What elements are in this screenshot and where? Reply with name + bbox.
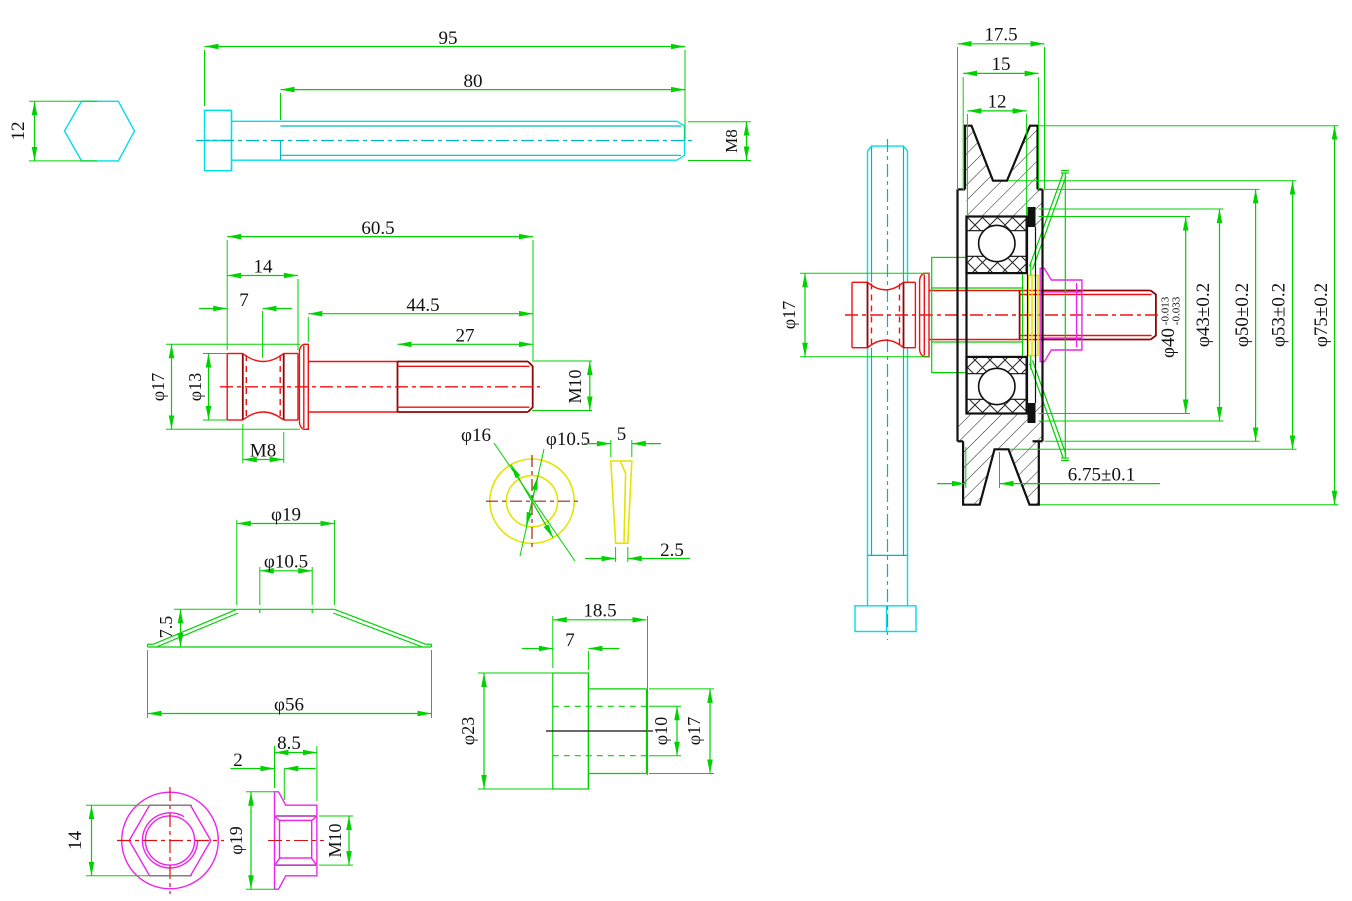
svg-text:M8: M8 [250,441,276,462]
dim 14 line [227,275,298,277]
dim M10 extension lines [319,815,353,817]
dim 15 line [963,72,1038,74]
dim phi50 extension lines [1045,188,1260,190]
pulley left face [956,189,958,441]
dim phi75 line [1334,126,1336,505]
pulley upper band hatch [958,189,1043,227]
right slant outer/inner [334,609,425,644]
phi10 bore dashed [553,705,647,707]
hex outline [129,805,211,876]
conical washer (yellow) in assembly [1029,276,1039,356]
dim 8.5 extension lines [274,746,276,788]
dim 44.5 line [308,313,533,315]
dim 44.5 extension line [307,317,309,342]
thread bore circle [145,816,194,865]
svg-text:27: 27 [456,326,475,347]
dim 7.5 extension line [174,608,236,610]
dim phi13 line [208,354,210,421]
bolt head [855,606,916,632]
svg-text:φ10: φ10 [651,717,671,745]
centerline vertical (red) [169,787,171,894]
dim 2.5 outside arrows [585,558,616,560]
phi17 section top/bottom [588,688,646,690]
svg-text:φ17: φ17 [779,301,799,329]
dim phi16 leader [494,443,575,561]
centerline horizontal [486,500,578,502]
shank outer lines M10 [308,361,397,363]
pulley top rim outline [965,126,1038,190]
dim phi13 extension lines [203,353,227,355]
svg-text:φ50±0.2: φ50±0.2 [1232,283,1253,347]
svg-text:44.5: 44.5 [406,295,439,316]
svg-text:φ75±0.2: φ75±0.2 [1311,283,1332,347]
bolt centerline [196,140,692,142]
pulley step edges bottom [958,440,964,442]
pulley step edges top [958,188,966,190]
svg-text:M10: M10 [565,369,585,403]
dim 7 outside arrows [522,648,553,650]
inner fold lines [621,462,626,543]
dim 6.75 extension lines [965,447,967,488]
groove thread dashed lines [245,355,247,419]
svg-text:12: 12 [8,122,29,141]
hole edge marks [259,609,261,613]
dim 14 line [91,805,93,876]
dim 12 line [34,101,36,161]
cone rim caps [1061,170,1069,172]
dim phi40 extension lines [1039,216,1191,218]
hex bolt head (end view, cyan hexagon) [65,101,135,161]
dim 5 extension lines [610,440,612,457]
lower bearing outline [967,357,1027,414]
shaft centerline [845,314,1162,316]
svg-text:φ13: φ13 [185,373,205,401]
lower bearing outer race cross-hatch [967,399,1027,413]
dim phi10.5 leader [520,449,544,556]
lower bearing inner race cross-hatch [967,357,1027,374]
dim 5 outside arrows [584,443,611,445]
centerline horizontal (red) [117,840,224,842]
dim phi19 extension lines [236,520,238,605]
dim phi23 extension lines [478,672,553,674]
cone washer rim (green) in assembly [1064,173,1066,458]
centerline vertical [531,455,533,547]
svg-text:φ17: φ17 [684,717,704,745]
washer inner circle [506,476,557,527]
dim phi56 line [148,713,432,715]
svg-text:7: 7 [565,630,575,651]
shank outer lines [232,120,678,122]
top flat [237,608,335,610]
nut inner face line [1076,283,1078,347]
tapered washer outline [611,461,632,543]
dim 12 extension lines [966,114,968,216]
dim M10 line [348,816,350,865]
dim 18.5 extension lines [552,616,554,668]
shaft collar [924,273,929,356]
svg-text:φ19: φ19 [226,826,246,854]
svg-text:95: 95 [439,28,458,49]
dim 60.5 extension lines [226,240,228,350]
bushing phi17 section [966,272,1022,274]
pulley right face [1041,189,1043,441]
dim 2 extension line [283,769,285,801]
nut outline [275,792,317,889]
tip chamfer [528,362,533,413]
thread minor lines [398,365,530,367]
dim M10 line [589,361,591,411]
pulley bottom rim hatch [963,441,1039,504]
groove arcs [243,354,284,362]
svg-text:φ53±0.2: φ53±0.2 [1269,283,1290,347]
bolt head hex edge [886,606,888,632]
left slant outer/inner [154,609,237,644]
nut centerline (red) [268,840,324,842]
spool right face [914,282,916,347]
thread minor lines [1020,294,1152,296]
flange phi23 [553,673,589,789]
bearing inner lines at bore [967,272,1027,274]
dim phi17 line [804,273,806,356]
svg-text:-0.033: -0.033 [1171,296,1183,325]
bore wall left [965,217,967,414]
dim M8 line [243,459,284,461]
countersink chamfers [275,817,281,822]
dim phi17 extension lines (assembly left) [800,272,930,274]
upper bearing ball [979,225,1015,261]
centerline (black) [546,730,653,732]
lower bearing ball [979,368,1015,404]
dim 80 line [281,89,686,91]
dim 6.75 outside arrows [937,483,966,485]
dim phi40 line [1185,217,1187,414]
dim phi17 line [171,344,173,429]
bolt shank outer (cyan, vertical) [867,151,869,282]
svg-text:17.5: 17.5 [984,25,1017,46]
left foot [148,643,154,645]
svg-text:M8: M8 [722,129,741,153]
bolt centerline [887,139,889,640]
svg-text:φ10.5: φ10.5 [546,429,590,450]
svg-text:18.5: 18.5 [583,601,616,622]
right face [646,689,648,774]
dim 2 outside arrows [230,768,274,770]
svg-text:8.5: 8.5 [277,733,301,754]
shaft shank lines [929,290,1040,292]
nut thread hole lines [1040,291,1082,293]
bore wall right [1027,227,1029,403]
dim M10 extension lines [532,360,592,362]
cone upper slants [1030,174,1064,267]
svg-text:6.75±0.1: 6.75±0.1 [1068,465,1135,486]
dim phi50 line [1255,189,1257,441]
dim 60.5 line [227,236,533,238]
dim phi23 line [483,673,485,789]
collar (flange washer) [304,344,309,429]
svg-text:5: 5 [617,424,627,445]
spool groove dashed [871,284,873,347]
thread bore rectangle [280,820,312,858]
bolt tip [868,146,908,151]
bolt thread minor lines [871,146,873,282]
head middle line [205,140,232,142]
dim phi19 extension lines [246,791,276,793]
bottom edge [148,646,432,648]
right foot [426,643,432,645]
dim 15 extension lines [962,77,964,190]
svg-text:φ17: φ17 [148,373,168,401]
dim 7.5 line [180,609,182,647]
dim phi75 extension lines [1039,125,1339,127]
dim phi10.5 line [260,570,312,572]
snap ring lower (black) [1028,403,1036,423]
upper bearing inner race cross-hatch [967,256,1027,273]
upper bearing outline [967,217,1027,274]
pulley bottom rim outline [963,441,1039,504]
spool left face (red) [851,282,853,347]
step face [587,673,589,789]
cone small-end stubs [1030,262,1032,276]
dim 7 extension line [262,311,264,358]
thread runout vertical [280,141,282,161]
svg-text:2: 2 [233,750,243,771]
dim 80 extension line [280,93,282,120]
dim 7 extension line [587,651,589,670]
dim M8 extension lines [242,424,244,463]
dim phi53 extension lines [1008,180,1297,182]
groove flange edges (solid dark) [242,354,244,421]
spool top/bottom edges [227,353,243,355]
spool right face [297,354,299,421]
tip chamfer [677,121,685,160]
svg-text:14: 14 [254,257,274,278]
dim 17.5 extension lines [957,47,959,190]
svg-text:12: 12 [988,92,1007,113]
dim 7 outside arrows [199,308,227,310]
upper bearing race lines [967,230,1027,232]
svg-text:60.5: 60.5 [361,218,394,239]
dim 17.5 line [958,43,1045,45]
shaft tip chamfer [1151,291,1156,340]
dim 95 extension lines [204,50,206,106]
dim phi17 extension lines [649,688,714,690]
dim phi53 line [1292,181,1294,450]
svg-text:2.5: 2.5 [660,540,684,561]
thread start line [1019,291,1021,340]
svg-text:15: 15 [992,54,1011,75]
svg-text:φ19: φ19 [271,505,301,526]
dim phi17 extension lines [166,343,300,345]
lower bearing race lines [967,373,1027,375]
shank end faces [231,110,233,170]
svg-text:φ56: φ56 [274,695,304,716]
shaft centerline [220,386,540,388]
dim phi43 line [1219,209,1221,421]
svg-text:φ43±0.2: φ43±0.2 [1193,283,1214,347]
dim 2.5 extension lines [615,547,617,562]
svg-text:14: 14 [65,831,86,851]
thread major arc [142,813,197,868]
dim 14 extension line [297,279,299,350]
pulley top rim hatch [965,126,1038,190]
spool left face [226,354,228,421]
washer outer circle [490,459,574,543]
svg-text:7: 7 [239,290,249,311]
dim 14 extension lines [86,804,192,806]
dim phi10.5 extension lines [259,567,261,605]
bushing bore lines [932,287,1023,289]
svg-text:80: 80 [464,71,483,92]
bolt head rect [205,110,232,170]
dim 12 extension lines [29,100,97,102]
dim phi43 extension lines [1039,208,1224,210]
dim phi19 line [237,523,335,525]
svg-text:7.5: 7.5 [156,616,176,639]
spool top/bottom edges [852,281,868,283]
svg-text:M10: M10 [325,823,345,857]
spool groove edges [867,282,869,347]
svg-text:φ23: φ23 [458,717,478,745]
dim phi10 line [676,706,678,755]
flange circle [122,792,219,889]
thread major lines [276,815,317,817]
dim phi56 extension lines [147,650,149,718]
dim phi10 extension lines [649,705,681,707]
nut flange (magenta) in assembly [1040,268,1082,361]
dim 12 line [967,110,1026,112]
thread start line [397,362,399,413]
dim phi19 line [250,792,252,889]
upper bearing outer race cross-hatch [967,217,1027,231]
dim phi17 line [709,689,711,774]
dim 27 line [398,343,534,345]
bolt thread runout [868,554,908,556]
cone lower slants [1030,364,1064,458]
dim M8 line [746,122,748,161]
thread minor lines [281,125,682,127]
spool groove arcs [868,282,904,290]
dim 18.5 line [553,619,647,621]
svg-text:φ16: φ16 [461,425,491,446]
bushing right face [1022,273,1024,356]
snap ring upper (black) [1028,207,1036,227]
bushing flange (green) [932,257,967,372]
svg-text:φ40: φ40 [1158,328,1179,358]
dim 95 line [205,46,686,48]
svg-text:φ10.5: φ10.5 [264,552,308,573]
pulley lower band hatch [958,403,1043,441]
dim 8.5 line [275,752,317,754]
dim M8 extension lines [688,121,751,123]
